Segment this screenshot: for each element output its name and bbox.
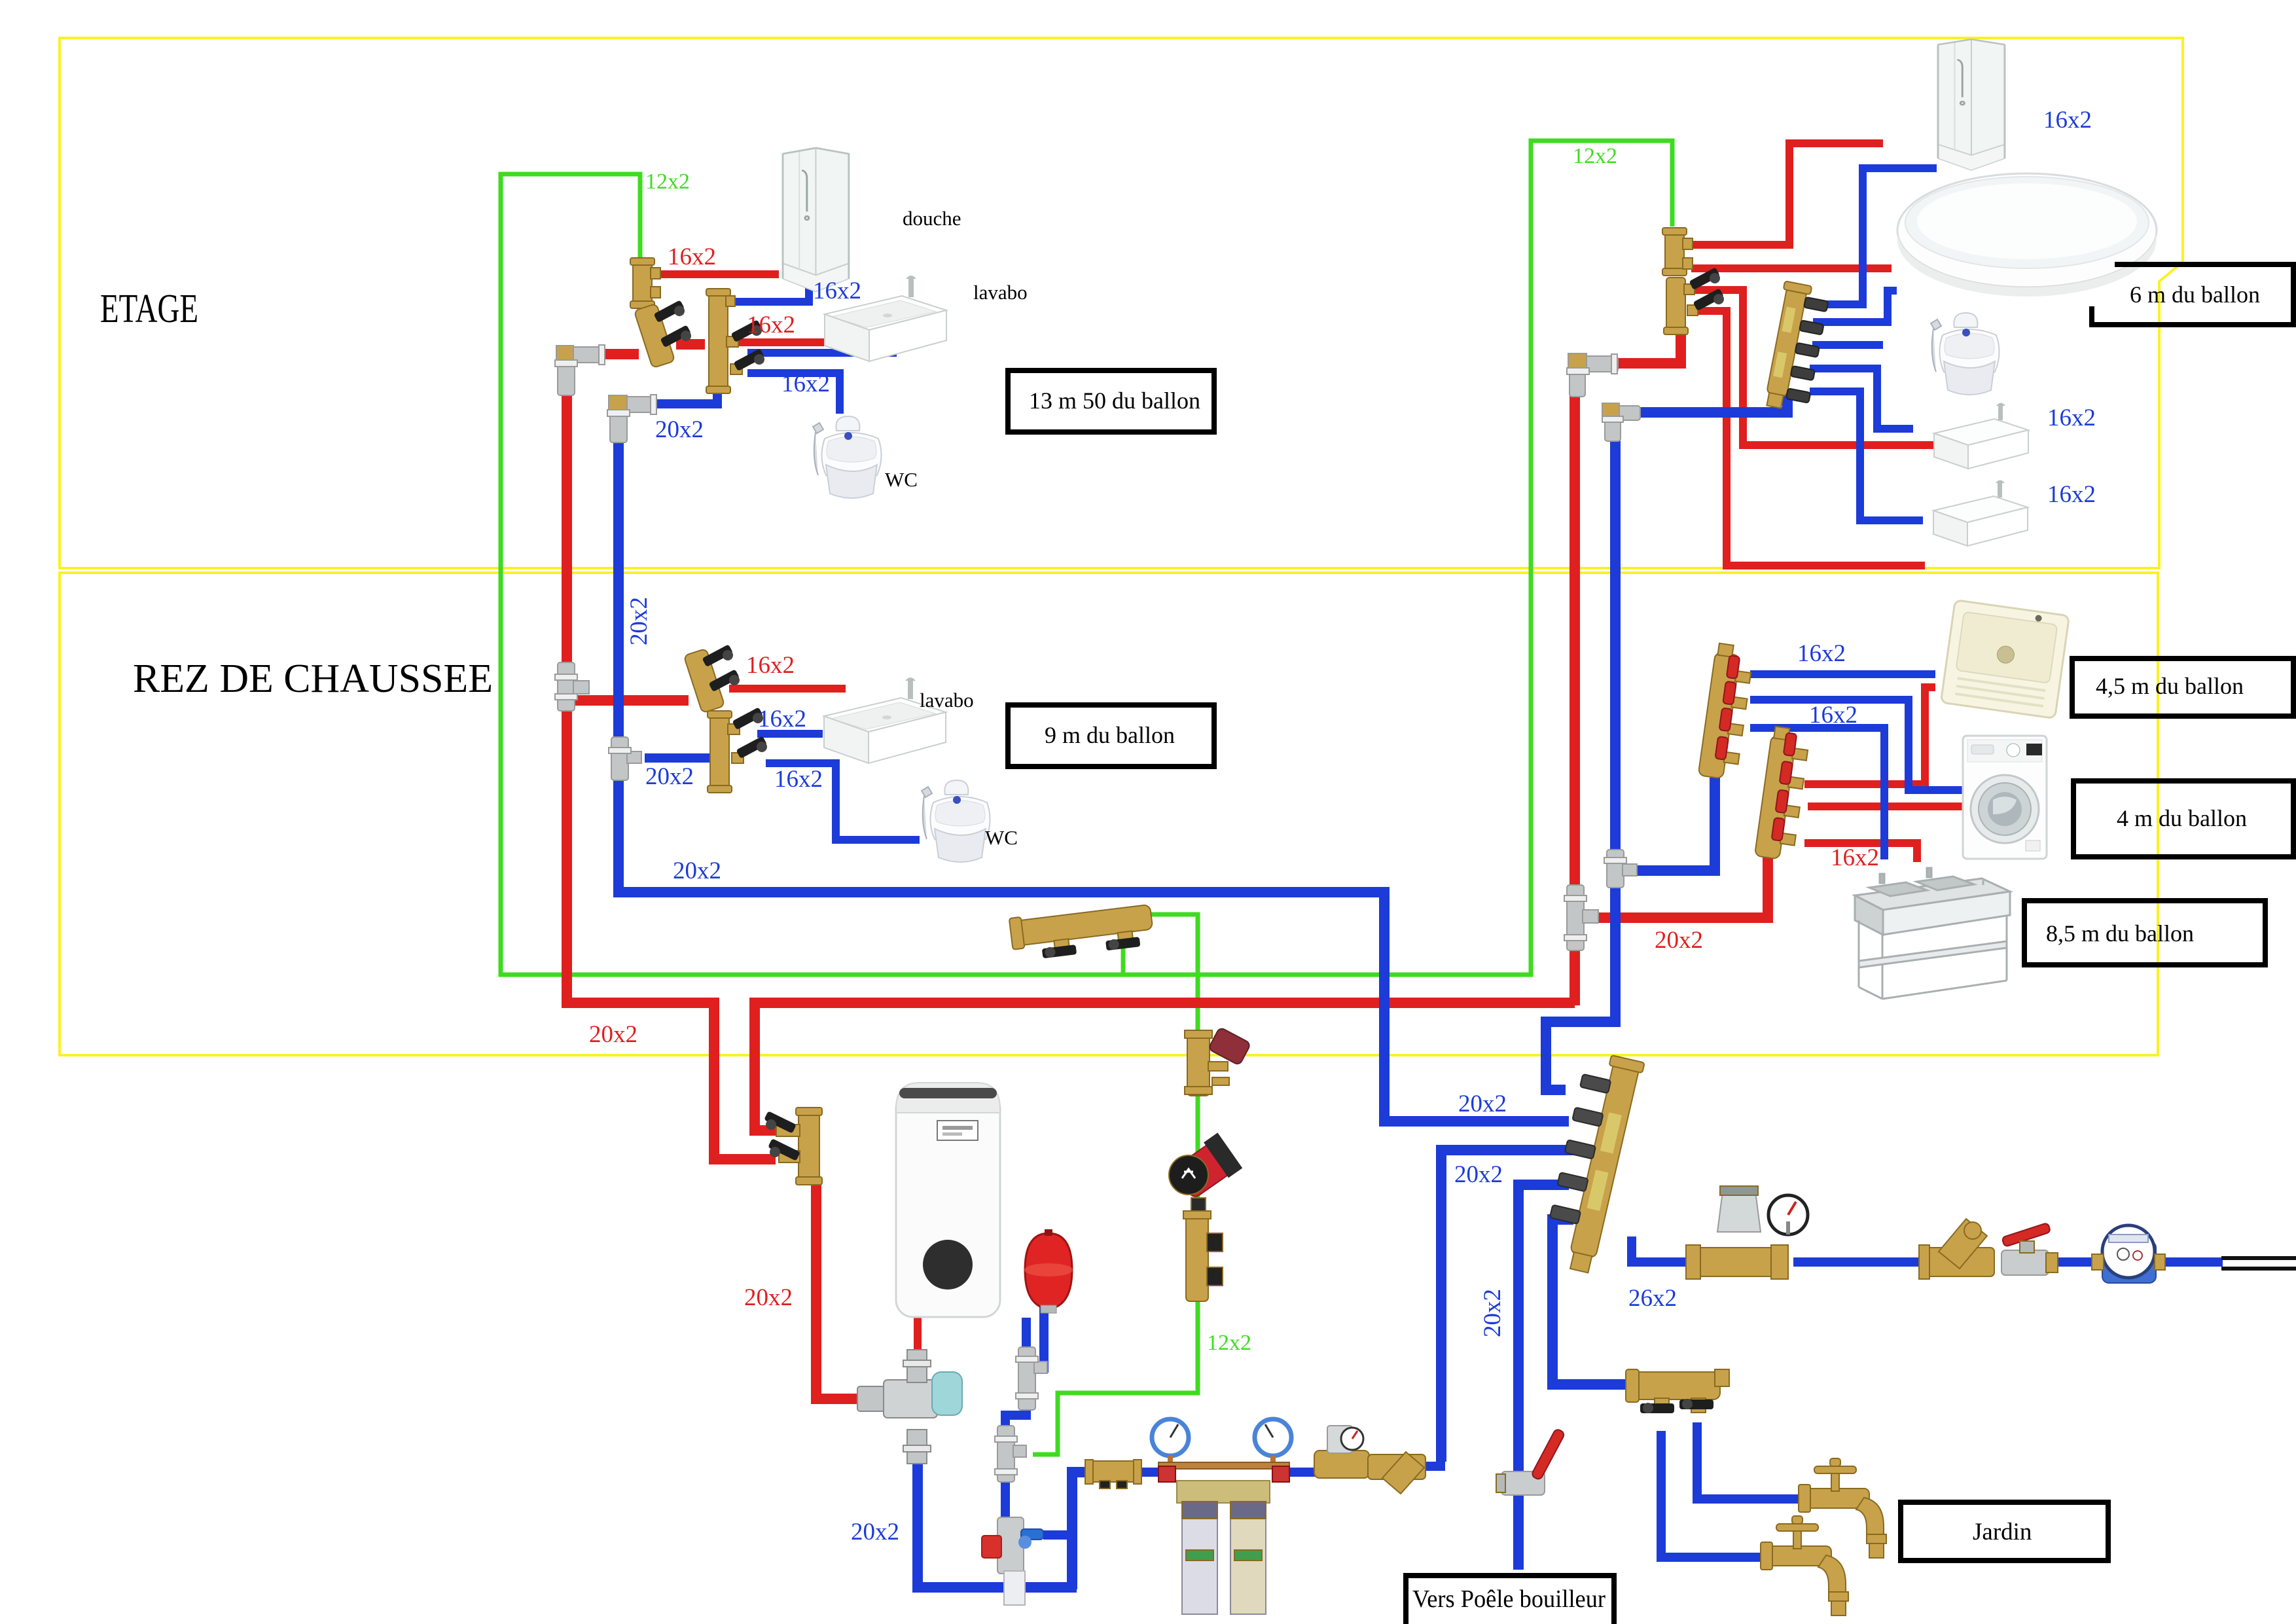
svg-text:16x2: 16x2 <box>758 706 806 732</box>
svg-text:20x2: 20x2 <box>1479 1289 1506 1337</box>
svg-text:12x2: 12x2 <box>645 170 690 194</box>
svg-text:WC: WC <box>985 826 1018 849</box>
svg-text:16x2: 16x2 <box>774 766 823 793</box>
svg-text:16x2: 16x2 <box>746 652 795 679</box>
svg-text:20x2: 20x2 <box>655 416 704 443</box>
svg-text:6 m du ballon: 6 m du ballon <box>2130 281 2260 308</box>
svg-text:16x2: 16x2 <box>2047 481 2096 508</box>
svg-text:ETAGE: ETAGE <box>100 287 198 331</box>
svg-text:12x2: 12x2 <box>1207 1331 1251 1355</box>
svg-text:lavabo: lavabo <box>920 689 974 712</box>
svg-text:4,5 m du ballon: 4,5 m du ballon <box>2096 673 2244 699</box>
svg-text:16x2: 16x2 <box>2043 107 2092 134</box>
svg-text:20x2: 20x2 <box>1655 927 1703 954</box>
svg-text:16x2: 16x2 <box>668 244 716 270</box>
svg-text:16x2: 16x2 <box>1797 640 1846 667</box>
svg-text:16x2: 16x2 <box>1831 844 1879 871</box>
svg-text:20x2: 20x2 <box>851 1519 899 1545</box>
svg-text:lavabo: lavabo <box>973 281 1028 304</box>
svg-text:WC: WC <box>885 468 918 491</box>
svg-text:douche: douche <box>903 207 961 230</box>
svg-text:20x2: 20x2 <box>1458 1091 1507 1117</box>
svg-text:Jardin: Jardin <box>1973 1519 2032 1545</box>
svg-text:Vers Poêle bouilleur: Vers Poêle bouilleur <box>1412 1585 1605 1613</box>
svg-text:20x2: 20x2 <box>645 763 694 790</box>
svg-text:REZ DE CHAUSSEE: REZ DE CHAUSSEE <box>133 657 493 701</box>
svg-text:26x2: 26x2 <box>1628 1285 1677 1312</box>
svg-text:9 m du ballon: 9 m du ballon <box>1045 722 1175 748</box>
svg-text:20x2: 20x2 <box>589 1021 637 1048</box>
svg-text:20x2: 20x2 <box>744 1284 793 1311</box>
svg-text:20x2: 20x2 <box>626 597 653 645</box>
svg-text:20x2: 20x2 <box>673 857 721 884</box>
svg-text:16x2: 16x2 <box>781 370 830 397</box>
svg-text:20x2: 20x2 <box>1454 1161 1503 1188</box>
svg-text:12x2: 12x2 <box>1573 144 1617 168</box>
svg-text:16x2: 16x2 <box>747 312 795 338</box>
svg-text:16x2: 16x2 <box>2047 405 2096 431</box>
svg-text:8,5 m du ballon: 8,5 m du ballon <box>2046 920 2194 947</box>
svg-text:16x2: 16x2 <box>1809 702 1857 729</box>
svg-text:4 m du ballon: 4 m du ballon <box>2117 805 2247 831</box>
svg-text:16x2: 16x2 <box>813 278 861 304</box>
svg-text:13 m 50 du ballon: 13 m 50 du ballon <box>1029 388 1200 414</box>
